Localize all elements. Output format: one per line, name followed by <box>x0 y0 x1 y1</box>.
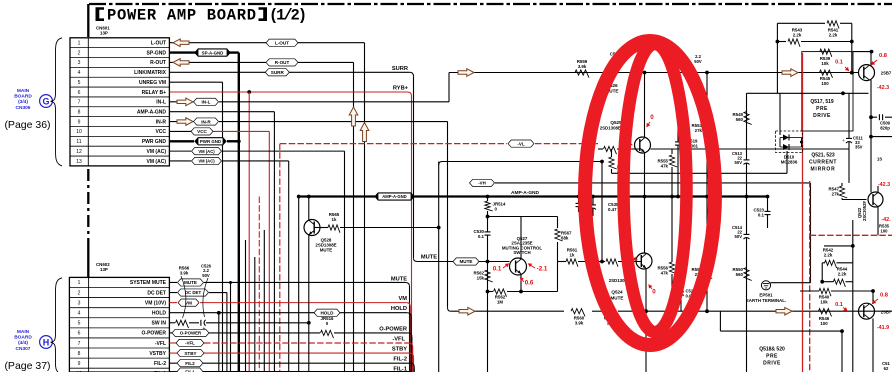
svg-text:R-OUT: R-OUT <box>150 60 166 66</box>
svg-text:2SC3052F: 2SC3052F <box>862 201 867 221</box>
svg-text:100: 100 <box>820 321 828 326</box>
svg-text:VM (AC): VM (AC) <box>198 159 215 164</box>
svg-text:2.2k: 2.2k <box>829 33 838 38</box>
wire SP-GND from CN601 pin2 (thick) <box>169 53 238 372</box>
junction R562 bottom <box>486 290 490 294</box>
board border (dash-dot outline of POWER AMP BOARD) <box>88 4 892 277</box>
svg-text:O-POWER: O-POWER <box>379 326 407 332</box>
wire grid vertical (DC DET branch) <box>226 293 228 372</box>
signal arrow into pin3 <box>173 59 189 67</box>
svg-text:1M: 1M <box>497 300 503 305</box>
svg-text:7: 7 <box>78 341 81 347</box>
wire HOLD branch down <box>218 313 220 372</box>
node SP-A-GND (bold) <box>195 49 230 56</box>
wire L-OUT from CN601 pin1 <box>169 43 364 372</box>
svg-text:3.9k: 3.9k <box>578 64 587 69</box>
junction rail at C519 <box>676 71 680 75</box>
svg-text:SP-A-GND: SP-A-GND <box>202 50 224 55</box>
svg-text:-42.3: -42.3 <box>877 85 889 91</box>
junction Q524 emitter to output <box>644 309 648 313</box>
svg-text:SP-GND: SP-GND <box>147 50 167 56</box>
svg-text:100: 100 <box>881 228 889 233</box>
node H (circled letter H) <box>40 336 53 349</box>
svg-text:10: 10 <box>76 129 82 135</box>
junction R556 to output <box>670 309 674 313</box>
svg-text:50V: 50V <box>202 273 210 278</box>
svg-text:6: 6 <box>78 90 81 96</box>
power rail red dashed vertical <box>809 181 811 372</box>
wire HOLD from pin4 <box>169 313 411 372</box>
capacitor C538 0.47 <box>576 197 620 213</box>
svg-text:FIL-2: FIL-2 <box>393 357 407 363</box>
wire grid vertical black 2 <box>254 257 256 372</box>
svg-text:DC DET: DC DET <box>147 290 166 296</box>
svg-text:0.1: 0.1 <box>835 60 843 66</box>
svg-text:BOARD: BOARD <box>14 335 32 341</box>
node -VL <box>508 140 534 147</box>
block Q517,519 PRE DRIVE <box>802 52 853 131</box>
svg-text:IN-R: IN-R <box>156 119 167 125</box>
svg-text:11: 11 <box>76 139 81 145</box>
wire AMP-A-GND from pin8 <box>169 112 274 372</box>
wire VCC from pin10 (red branch) <box>169 131 269 372</box>
svg-text:-42.3: -42.3 <box>878 182 890 188</box>
junction box left <box>776 40 780 44</box>
resistor R554 27k <box>692 197 713 312</box>
svg-text:-VL: -VL <box>517 141 524 146</box>
node O-POWER <box>172 329 209 336</box>
svg-text:MAIN: MAIN <box>17 88 30 94</box>
svg-text:27k: 27k <box>695 128 703 133</box>
junction column at gnd rail <box>745 195 749 199</box>
svg-text:RYB+: RYB+ <box>393 86 409 92</box>
svg-text:Q525: Q525 <box>610 120 622 125</box>
node -VH <box>495 183 811 283</box>
wire loop right side <box>557 217 559 229</box>
junction bias row <box>841 91 845 95</box>
svg-text:AMP-A-GND: AMP-A-GND <box>137 110 167 116</box>
svg-text:0.1: 0.1 <box>758 213 765 218</box>
svg-text:47k: 47k <box>661 164 669 169</box>
junction R554 to output <box>705 309 709 313</box>
node VM (AC) pin13 <box>192 157 222 164</box>
svg-text:50V: 50V <box>735 160 743 165</box>
svg-text:-2.1: -2.1 <box>537 266 548 273</box>
signal arrow out of pin9 <box>177 118 193 126</box>
svg-text:RELAY B+: RELAY B+ <box>142 90 166 96</box>
svg-text:0: 0 <box>652 289 656 296</box>
svg-text:LINK/MATRIX: LINK/MATRIX <box>134 70 167 76</box>
svg-text:1: 1 <box>78 41 81 47</box>
svg-text:(Page 36): (Page 36) <box>4 119 50 131</box>
svg-text:560: 560 <box>736 117 744 122</box>
svg-text:FIL-2: FIL-2 <box>154 361 166 367</box>
svg-text:0.1: 0.1 <box>835 302 843 308</box>
earth terminal EP501 <box>746 281 786 303</box>
resistor R557 base feed <box>598 146 640 154</box>
wire VM(10V) from pin3 (red) <box>169 303 410 372</box>
svg-text:68k: 68k <box>561 236 569 241</box>
svg-text:(1/2): (1/2) <box>269 6 307 24</box>
svg-text:SYSTEM MUTE: SYSTEM MUTE <box>130 280 167 286</box>
resistor R569 47k <box>609 149 628 175</box>
svg-text:3.9k: 3.9k <box>575 320 584 325</box>
svg-text:CN306: CN306 <box>16 105 31 111</box>
resistor JR514 0 <box>485 197 506 217</box>
capacitor C509 820p <box>869 114 892 130</box>
svg-text:0.47: 0.47 <box>608 207 617 212</box>
capacitor C515 820p right corner <box>882 361 890 371</box>
resistor JR516 0 <box>321 316 335 338</box>
svg-text:(Page 37): (Page 37) <box>4 360 50 372</box>
svg-text:47k: 47k <box>661 271 669 276</box>
svg-text:FIL-1: FIL-1 <box>393 367 407 372</box>
svg-text:IN-R: IN-R <box>201 119 211 124</box>
title POWER AMP BOARD (1/2) <box>96 6 308 24</box>
capacitor C526 2.2 50V <box>201 264 212 332</box>
wire 47k bias rail <box>612 151 788 173</box>
svg-text:7: 7 <box>78 100 81 106</box>
svg-text:2SB7: 2SB7 <box>881 309 892 314</box>
svg-text:VM (AC): VM (AC) <box>147 159 167 165</box>
svg-text:2: 2 <box>78 50 81 56</box>
svg-text:AMP-A-GND: AMP-A-GND <box>382 194 406 199</box>
highlight ellipse outer (red) <box>585 41 715 345</box>
svg-text:MC2836: MC2836 <box>781 160 798 165</box>
wire VM(AC) from pin12 <box>169 151 344 372</box>
wire Q527 collector loop top <box>488 216 558 218</box>
signal arrow upper right <box>782 69 798 77</box>
wire -VFL from pin7 (red dashed) <box>169 343 412 372</box>
wire output stem down <box>645 311 647 372</box>
wire R-OUT from CN601 pin3 <box>169 62 353 372</box>
svg-text:MUTE: MUTE <box>391 276 407 282</box>
wire FIL-1 from pin10 <box>169 371 411 373</box>
svg-text:2: 2 <box>78 290 81 296</box>
junction box right <box>850 40 854 44</box>
svg-text:DRIVE: DRIVE <box>813 113 831 119</box>
svg-text:2.2k: 2.2k <box>793 33 802 38</box>
resistor R543 2.2k <box>788 28 803 47</box>
svg-text:10k: 10k <box>820 300 828 305</box>
wire earth terminal row <box>771 282 811 284</box>
junction on RYB+ <box>247 90 251 94</box>
svg-text:Q518& 520: Q518& 520 <box>759 347 785 353</box>
svg-text:0.8: 0.8 <box>880 293 889 299</box>
svg-text:SURR: SURR <box>271 70 285 75</box>
svg-text:VM (AC): VM (AC) <box>147 149 167 155</box>
connector CN602 13P reference label <box>96 262 110 272</box>
svg-text:3: 3 <box>78 300 81 306</box>
svg-text:MAIN: MAIN <box>17 329 30 335</box>
brace grouping CN602 pins to node H <box>51 278 63 372</box>
resistor R549 560 <box>733 112 752 125</box>
junction AMP-A-GND left <box>297 195 301 199</box>
svg-text:PWR GND: PWR GND <box>142 139 167 145</box>
resistor R540 10k <box>800 288 873 304</box>
wire AMP-A-GND rail (thick) <box>299 197 768 373</box>
svg-text:13P: 13P <box>100 31 108 36</box>
svg-text:VSTBY: VSTBY <box>149 351 166 357</box>
wire FIL-2 from pin9 <box>169 363 414 372</box>
up arrow to L-OUT <box>360 123 369 142</box>
resistor R559 3.9k <box>575 59 589 78</box>
signal arrow upper mid <box>458 69 474 77</box>
capacitor C523 0.1 <box>754 197 771 229</box>
transistor Q518 2SB798 lower <box>859 291 892 372</box>
wire VM(AC) from pin13 <box>169 161 288 372</box>
svg-text:6: 6 <box>78 331 81 337</box>
svg-text:13P: 13P <box>100 267 108 272</box>
wire Q524 base column <box>601 162 603 262</box>
svg-text:3: 3 <box>78 60 81 66</box>
svg-text:VCC: VCC <box>197 129 207 134</box>
svg-text:0.1: 0.1 <box>478 234 485 239</box>
resistor R565 1k <box>328 225 340 233</box>
svg-text:O-POWER: O-POWER <box>180 331 202 336</box>
svg-text:EARTH TERMINAL.: EARTH TERMINAL. <box>746 298 786 303</box>
svg-text:PRE: PRE <box>816 106 828 112</box>
transistor Q524 2SD1308ETL MUTE <box>609 197 652 312</box>
wire DC DET from pin2 <box>169 292 227 294</box>
resistor R561 1k <box>558 248 603 267</box>
svg-text:G: G <box>42 96 49 106</box>
capacitor C514 22 50V <box>732 225 750 239</box>
wire grid vertical red dashed B+ branch <box>258 197 260 373</box>
capacitor C530 0.1 <box>474 217 491 262</box>
diode D510 MC2836 (dual diode, dashed box) <box>776 93 804 164</box>
resistor R541 2.2k <box>827 21 839 38</box>
node FIL1 <box>177 368 203 375</box>
svg-text:BOARD: BOARD <box>14 94 32 100</box>
svg-text:0: 0 <box>650 114 654 121</box>
svg-text:Q521, 523: Q521, 523 <box>811 153 835 159</box>
svg-text:15k: 15k <box>477 276 485 281</box>
signal arrow mid lower <box>459 307 475 315</box>
wire O-POWER from pin6 <box>169 333 412 372</box>
svg-text:-VFL: -VFL <box>392 336 405 342</box>
node IN-R <box>194 118 219 125</box>
wire VSTBY from pin8 (red) <box>169 353 413 372</box>
node IN-L <box>194 98 219 105</box>
wire SYSTEM MUTE from CN602 pin1 <box>169 282 409 372</box>
connector CN601 13P reference label <box>96 26 110 36</box>
capacitor C513 22 50V <box>732 151 750 165</box>
junction JR514 bottom <box>486 195 490 199</box>
svg-text:1: 1 <box>78 280 81 286</box>
resistor R539 10k <box>820 49 874 66</box>
wire UNREG VM from pin5 <box>169 82 222 372</box>
wire LINK/MATRIX / SURR net from pin4 <box>169 72 417 261</box>
signal arrow out of pin7 <box>177 98 193 106</box>
connector CN601 table with pins 1-13 <box>70 38 169 166</box>
svg-text:VM (AC): VM (AC) <box>198 149 215 154</box>
resistor R546 100 <box>819 309 832 326</box>
svg-text:CN307: CN307 <box>16 346 31 352</box>
wire RELAY B+ / RYB+ net from pin6 (red) <box>169 92 411 372</box>
svg-text:AMP-A-GND: AMP-A-GND <box>511 190 540 196</box>
svg-text:27k: 27k <box>832 192 840 197</box>
wire pre-drive feedback box R543/R541 <box>777 23 851 93</box>
svg-text:12: 12 <box>76 149 82 155</box>
svg-text:+: + <box>842 138 845 143</box>
diode 1SS133 <box>877 157 882 162</box>
svg-text:1S: 1S <box>877 157 882 162</box>
transistor Q517 2SB798 <box>859 52 892 193</box>
connector CN602 table with pins 1-10 <box>69 277 169 377</box>
node SURR <box>265 69 289 76</box>
svg-text:5: 5 <box>78 80 81 86</box>
svg-text:MIRROR: MIRROR <box>810 167 835 173</box>
svg-text:MUTE: MUTE <box>421 254 437 260</box>
capacitor C521 2.2 50V <box>609 52 620 76</box>
svg-text:820p: 820p <box>880 125 890 130</box>
wire mirror block stem down <box>852 282 854 372</box>
svg-text:Q517, 519: Q517, 519 <box>810 99 834 105</box>
svg-text:IN-L: IN-L <box>156 100 166 106</box>
svg-text:MUTE: MUTE <box>610 296 623 301</box>
node FIL2 <box>177 360 203 367</box>
wire IN-L feed rail <box>449 72 859 74</box>
svg-text:UNREG VM: UNREG VM <box>139 80 166 86</box>
svg-text:62: 62 <box>884 366 889 371</box>
wire IN-L from pin7 <box>169 73 449 102</box>
transistor Q528 2SD1308E MUTE <box>304 197 340 373</box>
wire RYB+ branch down (red) <box>248 92 250 372</box>
svg-text:L-OUT: L-OUT <box>275 40 289 45</box>
node PWR GND (bold) <box>195 138 226 145</box>
svg-text:VCC: VCC <box>155 129 166 135</box>
wire MUTE to Q527 base <box>417 261 453 263</box>
up arrow to R-OUT <box>349 107 358 126</box>
junction R555 to gnd rail <box>670 195 674 199</box>
svg-text:8: 8 <box>78 351 81 357</box>
svg-text:2.2k: 2.2k <box>824 253 833 258</box>
wire SW IN from pin5 <box>169 322 308 324</box>
svg-text:MUTE: MUTE <box>184 280 197 285</box>
leader arc R566 <box>181 276 186 318</box>
junction C540 top <box>591 195 595 199</box>
junction rail at Q525 collector <box>643 71 647 75</box>
svg-text:O-POWER: O-POWER <box>142 331 167 337</box>
resistor R566 3.9k <box>176 265 190 328</box>
svg-text:L-OUT: L-OUT <box>151 41 166 47</box>
svg-text:VM: VM <box>398 296 407 302</box>
junction C523 top <box>766 195 770 199</box>
svg-text:(3/4): (3/4) <box>18 99 28 105</box>
svg-text:13: 13 <box>76 159 82 165</box>
svg-text:PRE: PRE <box>766 354 778 360</box>
wire mirror to R542 block <box>824 220 853 282</box>
junction C538 top <box>577 195 581 199</box>
svg-text:3.9k: 3.9k <box>180 270 189 275</box>
svg-text:560: 560 <box>736 272 744 277</box>
svg-text:1k: 1k <box>332 217 337 222</box>
svg-text:2SB7: 2SB7 <box>881 71 892 76</box>
junction R544 row <box>820 280 824 284</box>
resistor R555 47k <box>658 149 678 197</box>
highlight ellipse inner (red) <box>624 44 687 332</box>
brace grouping CN601 pins to node G <box>51 38 63 166</box>
resistor R567 68k <box>555 229 572 292</box>
wire R549/C513/C514 column <box>746 93 748 372</box>
junction HOLD branch <box>217 311 221 315</box>
svg-text:4: 4 <box>78 70 81 76</box>
wire lower bias row <box>720 311 842 372</box>
svg-text:0.6: 0.6 <box>525 280 534 287</box>
wire mute node down <box>438 162 440 373</box>
capacitor C540 1 50V <box>579 197 596 218</box>
main board (3/4) CN306 reference (blue) <box>14 88 32 111</box>
junction link to Q524 base feed <box>600 160 604 164</box>
resistor R550 560 <box>733 267 752 280</box>
svg-text:50V: 50V <box>735 234 743 239</box>
svg-text:PWR GND: PWR GND <box>200 139 221 144</box>
svg-text:-41.9: -41.9 <box>877 325 889 331</box>
resistor R562 15k <box>474 262 493 373</box>
svg-text:50V: 50V <box>694 59 702 64</box>
svg-text:SW IN: SW IN <box>152 321 167 327</box>
svg-text:-VFL: -VFL <box>185 341 195 346</box>
svg-text:DC DET: DC DET <box>185 290 202 295</box>
node VM <box>178 299 199 306</box>
svg-text:10k: 10k <box>821 61 829 66</box>
transistor Q525 2SD1308ETL <box>600 73 651 197</box>
junction R540 to Q518 collector <box>871 289 875 293</box>
capacitor C520 0.001 <box>678 289 697 299</box>
svg-text:4: 4 <box>78 311 81 317</box>
node MUTE (hex) <box>453 258 479 265</box>
resistor R542 2.2k <box>822 247 853 281</box>
wire IN-R feed to output stage <box>451 310 892 312</box>
svg-text:Q524: Q524 <box>611 290 623 295</box>
svg-text:9: 9 <box>78 361 81 367</box>
resistor R560 3.9k <box>571 309 585 326</box>
wire base rail to current mirror <box>651 148 850 150</box>
svg-text:-VH: -VH <box>478 181 486 186</box>
svg-text:IN-L: IN-L <box>202 100 211 105</box>
capacitor C511 33 35V <box>842 93 863 183</box>
svg-text:H: H <box>43 337 50 347</box>
wire B+ rail (red dashed) <box>280 144 598 372</box>
junction R561 to Q524 base <box>600 260 604 264</box>
node DC DET <box>178 289 209 296</box>
node R-OUT <box>266 59 298 66</box>
svg-text:SWITCH: SWITCH <box>513 250 530 255</box>
svg-text:CURRENT: CURRENT <box>809 160 837 166</box>
junction rail at R553 <box>705 71 709 75</box>
junction mute node <box>437 226 441 230</box>
leader arc C526 <box>203 278 208 317</box>
svg-text:HOLD: HOLD <box>320 310 334 315</box>
svg-text:0.1: 0.1 <box>493 266 502 273</box>
junction R553 bottom <box>705 195 709 199</box>
signal arrow into pin1 <box>173 39 189 47</box>
node -VFL <box>176 339 204 346</box>
wire C520 column <box>680 286 682 311</box>
svg-text:8: 8 <box>78 110 81 116</box>
resistor R544 2.2k <box>822 267 853 287</box>
wire Q528 base to mute node <box>314 227 439 229</box>
resistor R562 1M <box>488 289 558 305</box>
junction MUTE at C530 column <box>486 260 490 264</box>
wire IN-R from pin9 <box>169 122 451 312</box>
node L-OUT <box>266 39 298 46</box>
svg-text:HOLD: HOLD <box>152 311 167 317</box>
svg-text:0.8: 0.8 <box>879 53 888 59</box>
main board (4/4) CN307 reference (blue) <box>14 329 32 352</box>
wire mute link upper <box>439 162 602 166</box>
